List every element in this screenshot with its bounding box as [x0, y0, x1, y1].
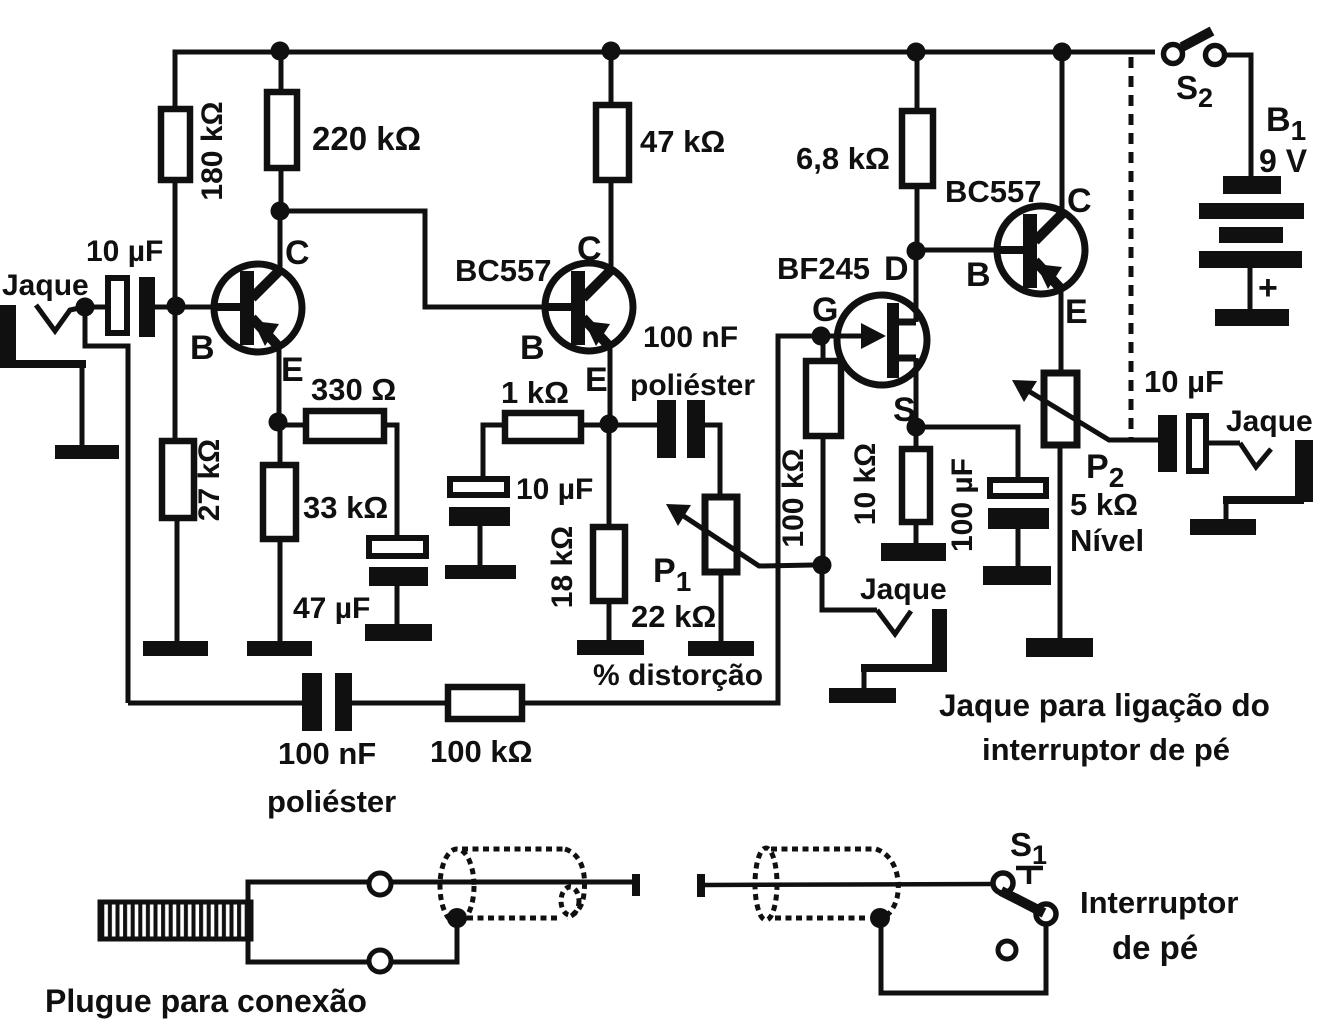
svg-text:BC557: BC557 [945, 174, 1042, 209]
transistor Q2 BC557 [455, 230, 633, 424]
resistor 1 kOhm [483, 375, 609, 479]
jack footswitch Jaque [822, 565, 947, 688]
transistor Q3 BF245 [777, 250, 927, 429]
svg-text:Nível: Nível [1070, 523, 1144, 558]
node Q2 emitter [600, 415, 619, 434]
svg-text:B: B [520, 329, 545, 367]
svg-text:27 kΩ: 27 kΩ [193, 439, 226, 521]
svg-text:1 kΩ: 1 kΩ [501, 375, 569, 410]
svg-text:G: G [812, 291, 838, 329]
svg-text:47 µF: 47 µF [293, 592, 370, 625]
svg-text:100 kΩ: 100 kΩ [430, 734, 532, 769]
resistor 27 kOhm [162, 439, 226, 641]
svg-text:BC557: BC557 [455, 253, 552, 288]
wire plug tip end tick [632, 874, 640, 896]
svg-text:100 µF: 100 µF [946, 458, 979, 552]
wire drain node to Q4 base [916, 248, 997, 253]
potentiometer P2 5 kOhm [1012, 373, 1158, 638]
potentiometer P1 22 kOhm [631, 497, 813, 641]
cable shield footswitch [755, 848, 898, 920]
wire shield to switch [881, 918, 1046, 993]
node source [907, 418, 926, 437]
ground P2 [1026, 638, 1093, 657]
resistor 6.8 kOhm [796, 52, 933, 251]
resistor 330 Ohm [278, 372, 397, 538]
resistor 33 kOhm [263, 422, 388, 641]
svg-text:180 kΩ: 180 kΩ [196, 101, 229, 200]
resistor 100 kOhm feedback [430, 336, 864, 769]
wire jack sleeve to ground [80, 368, 85, 445]
ground 10k [881, 543, 946, 561]
ground 27k [143, 641, 208, 656]
svg-text:100 nF: 100 nF [278, 736, 376, 771]
svg-text:D: D [884, 250, 909, 288]
node rail-Q4C [1053, 43, 1072, 62]
svg-text:B: B [966, 256, 991, 294]
node footswitch shield [870, 908, 890, 928]
ground 10uF stage2 [445, 565, 516, 579]
label jack footswitch caption [939, 687, 1270, 767]
svg-text:interruptor de pé: interruptor de pé [982, 732, 1230, 767]
svg-text:100 kΩ: 100 kΩ [777, 448, 810, 547]
capacitor 10 uF output [1144, 364, 1240, 472]
svg-text:+: + [1258, 269, 1278, 307]
svg-text:E: E [585, 361, 608, 399]
svg-text:10 kΩ: 10 kΩ [849, 443, 882, 525]
capacitor 10 uF input [85, 235, 216, 337]
svg-text:C: C [1067, 182, 1092, 220]
node Q1 emitter [269, 413, 288, 432]
svg-text:de pé: de pé [1112, 929, 1198, 966]
svg-text:10 µF: 10 µF [86, 235, 163, 268]
node Q1 collector [271, 202, 290, 221]
resistor 180 kOhm [161, 52, 229, 441]
resistor 220 kOhm [267, 52, 421, 211]
node rail-47k [602, 42, 621, 61]
wire Q1C to Q2 base [280, 211, 546, 307]
label Plugue para conexao [45, 983, 367, 1019]
ground footswitch jack [829, 688, 896, 703]
resistor 100 kOhm gate [777, 336, 841, 565]
node drain [907, 242, 926, 261]
node rail-220k [271, 42, 290, 61]
svg-text:9 V: 9 V [1259, 143, 1308, 179]
node wiper P1 [813, 556, 832, 575]
svg-text:BF245: BF245 [777, 251, 870, 286]
dashed separator line [1129, 57, 1134, 440]
svg-text:C: C [285, 234, 310, 272]
svg-text:220 kΩ: 220 kΩ [312, 120, 421, 157]
svg-text:B: B [190, 329, 215, 367]
svg-text:poliéster: poliéster [267, 784, 396, 819]
svg-text:330 Ω: 330 Ω [311, 372, 396, 407]
svg-text:Interruptor: Interruptor [1080, 885, 1238, 920]
ground output jack [1190, 519, 1256, 535]
ground 18k [577, 640, 644, 655]
svg-text:E: E [281, 351, 304, 389]
capacitor 100 nF poliester feedback [267, 673, 448, 819]
ground 33k [247, 641, 312, 656]
svg-text:10 µF: 10 µF [516, 473, 593, 506]
switch S2 [1164, 31, 1225, 113]
ground input jack [55, 445, 119, 459]
node input [76, 298, 95, 317]
svg-text:33 kΩ: 33 kΩ [303, 490, 388, 525]
svg-text:6,8 kΩ: 6,8 kΩ [796, 141, 890, 176]
input jack Jaque [0, 269, 89, 368]
switch S1 [993, 826, 1056, 959]
svg-text:poliéster: poliéster [630, 369, 755, 402]
node gate [812, 327, 831, 346]
wire footswitch cable [705, 884, 994, 885]
svg-text:10 µF: 10 µF [1144, 364, 1224, 399]
resistor 10 kOhm [849, 427, 930, 543]
svg-text:% distorção: % distorção [593, 659, 763, 692]
capacitor 100 nF poliester stage2 [609, 321, 755, 497]
wire top supply rail [175, 52, 1155, 109]
output jack Jaque [1223, 405, 1313, 519]
transistor Q4 BC557 [945, 52, 1092, 373]
wire input node to feedback line [85, 307, 128, 703]
svg-text:18 kΩ: 18 kΩ [546, 526, 579, 608]
wire footswitch cable start tick [697, 874, 705, 897]
ground P1 [688, 641, 754, 656]
svg-text:Jaque para ligação do: Jaque para ligação do [939, 687, 1270, 723]
svg-text:47 kΩ: 47 kΩ [640, 124, 725, 159]
plug body Plugue [100, 873, 632, 972]
svg-text:Jaque: Jaque [2, 269, 89, 302]
wire feedback bottom [128, 701, 302, 706]
svg-text:E: E [1065, 293, 1088, 331]
ground 100uF [983, 566, 1051, 585]
svg-text:Jaque: Jaque [860, 573, 947, 606]
node rail-6.8k [907, 43, 926, 62]
svg-text:Plugue para conexão: Plugue para conexão [45, 983, 367, 1019]
capacitor 10 uF stage2 [449, 473, 593, 565]
svg-text:100 nF: 100 nF [643, 321, 738, 354]
label Interruptor de pe [1080, 885, 1238, 966]
battery B1 [1199, 101, 1308, 326]
resistor 18 kOhm [546, 424, 625, 640]
resistor 47 kOhm [596, 52, 725, 268]
svg-text:22 kΩ: 22 kΩ [631, 599, 716, 634]
node plug shield [447, 908, 467, 928]
cable shield plug [440, 849, 585, 923]
wire S2 to battery [1225, 55, 1251, 178]
ground 47uF [365, 624, 432, 641]
transistor Q1 BC557 [190, 211, 310, 422]
capacitor 47 uF [293, 538, 428, 625]
svg-text:5 kΩ: 5 kΩ [1070, 487, 1138, 522]
svg-text:Jaque: Jaque [1226, 405, 1313, 438]
svg-text:C: C [577, 230, 602, 268]
capacitor 100 uF [916, 427, 1049, 566]
node base Q1 [167, 297, 186, 316]
label percent distorcao [593, 659, 763, 692]
